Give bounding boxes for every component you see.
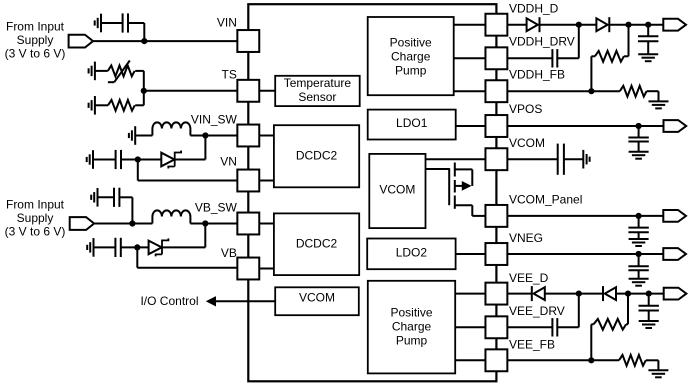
node VB junction — [134, 244, 140, 250]
node VNEG junction — [636, 251, 642, 257]
svg-text:VDDH_FB: VDDH_FB — [509, 68, 565, 82]
connector input supply (upper) — [69, 35, 93, 48]
svg-text:Temperature: Temperature — [284, 76, 352, 90]
svg-text:TS: TS — [222, 68, 237, 82]
label VPOS — [509, 102, 542, 116]
wire R5 to VDDH output — [624, 25, 629, 57]
pin VDDH_D — [485, 14, 507, 36]
diode D2 (schottky) — [149, 238, 169, 256]
pin VB_SW — [237, 213, 259, 235]
wire VDDH_DRV pin to C5 — [507, 57, 552, 59]
ground (C10) — [629, 279, 649, 286]
wire D4 to output — [609, 24, 663, 26]
pin VEE_D — [485, 283, 507, 305]
svg-text:VDDH_DRV: VDDH_DRV — [509, 34, 575, 48]
label TS — [222, 68, 237, 82]
node TS junction — [141, 88, 147, 94]
svg-text:VCOM: VCOM — [379, 183, 415, 197]
block Positive Charge Pump (bottom) — [368, 281, 455, 374]
wire VEE_D pin to D5 — [507, 293, 531, 295]
connector input supply (lower) — [70, 217, 94, 230]
svg-text:VCOM: VCOM — [509, 136, 545, 150]
resistor R3 (TS bias) — [108, 100, 135, 111]
capacitor C5 (flying) — [552, 49, 557, 67]
capacitor C1 (VIN bypass) — [123, 13, 128, 32]
label VEE_FB — [509, 338, 555, 352]
node VB_SW junction — [202, 220, 208, 226]
wire VIN_SW pin to DCDC2 — [259, 135, 274, 137]
label VCOM — [509, 136, 545, 150]
wire VNEG pin to output — [507, 253, 663, 255]
resistor R5 (FB upper) — [595, 51, 624, 62]
svg-text:DCDC2: DCDC2 — [296, 148, 338, 162]
wire resistor branch — [135, 91, 144, 106]
capacitor C11 (flying) — [552, 318, 557, 336]
wire ground to L1 — [135, 135, 152, 137]
svg-text:Supply: Supply — [17, 211, 54, 225]
pin VPOS — [485, 115, 507, 137]
node VEE pump junction — [576, 291, 582, 297]
wire R3 to ground — [95, 104, 108, 106]
capacitor C10 (VNEG) — [628, 254, 648, 279]
svg-text:LDO2: LDO2 — [396, 245, 428, 259]
block DCDC2 (lower) — [274, 213, 359, 275]
connector VCOM_Panel output — [663, 210, 686, 222]
wire D2 to VB_SW node — [162, 224, 205, 248]
ground (C4) — [87, 238, 93, 257]
ground (R6) — [648, 370, 668, 377]
node VEE output junction — [646, 291, 652, 297]
ground (C12) — [639, 321, 659, 328]
wire VDDH_FB pin to divider — [507, 90, 619, 92]
wire VPOS pin to output — [507, 125, 663, 127]
capacitor C7 (VPOS out) — [628, 126, 648, 152]
svg-text:Charge: Charge — [391, 50, 431, 64]
wire C3 to ground — [98, 196, 115, 198]
svg-text:VEE_D: VEE_D — [509, 271, 549, 285]
svg-text:VCOM: VCOM — [299, 291, 335, 305]
wire charge pump to VEE_D pin — [455, 293, 485, 295]
label VN — [220, 155, 237, 169]
node VIN junction — [141, 38, 147, 44]
wire D3 to D4 — [540, 24, 597, 26]
svg-text:From Input: From Input — [6, 197, 65, 211]
wire R4 to ground — [647, 91, 659, 101]
svg-text:Pump: Pump — [395, 64, 427, 78]
wire C1 to ground — [101, 22, 123, 24]
svg-text:VNEG: VNEG — [509, 231, 543, 245]
wire VB node to VB pin — [137, 247, 237, 267]
label VDDH_FB — [509, 68, 565, 82]
wire VN pin to DCDC2 — [259, 180, 274, 182]
node VPOS junction — [636, 123, 642, 129]
svg-text:Pump: Pump — [396, 333, 428, 347]
capacitor C9 (VCOM_Panel) — [628, 216, 648, 239]
wire ground to C4 — [94, 246, 116, 248]
pin VIN_SW — [237, 125, 259, 147]
label VNEG — [509, 231, 543, 245]
block VCOM control — [275, 287, 359, 315]
wire charge pump to VEE_FB pin — [455, 359, 485, 361]
label VEE_DRV — [509, 304, 565, 318]
svg-text:VDDH_D: VDDH_D — [509, 2, 559, 16]
svg-text:VB_SW: VB_SW — [195, 201, 238, 215]
wire C8 to ground — [564, 158, 583, 160]
block Temperature Sensor — [275, 76, 360, 106]
connector VDDH output — [663, 19, 686, 31]
pin VNEG — [485, 243, 507, 265]
pin VCOM — [485, 148, 507, 170]
block DCDC2 (upper) — [274, 125, 359, 187]
wire input to L2 — [95, 223, 153, 225]
wire VCOM control to I/O Control — [206, 296, 275, 306]
node VIN_SW junction — [202, 132, 208, 138]
pin VEE_DRV — [485, 316, 507, 338]
capacitor C6 (VDDH out) — [638, 25, 658, 55]
diode D1 (schottky) — [161, 151, 181, 169]
svg-text:I/O Control: I/O Control — [140, 294, 198, 308]
node VDDH feedback junction — [625, 22, 631, 28]
inductor L2 — [152, 210, 190, 223]
ground (C1) — [95, 14, 101, 33]
resistor R6 (FB lower) — [619, 355, 646, 366]
wire C2 to D1 — [121, 159, 161, 161]
diode D5 — [532, 286, 545, 301]
ground (C3) — [91, 188, 97, 207]
ground (C6) — [638, 54, 658, 61]
wire LDO2 to VNEG pin — [456, 253, 486, 255]
svg-text:Supply: Supply — [17, 33, 54, 47]
thermistor RT1 — [108, 61, 135, 83]
svg-text:VPOS: VPOS — [509, 102, 542, 116]
label VIN_SW — [191, 112, 238, 126]
svg-text:LDO1: LDO1 — [396, 116, 428, 130]
node VCOM_Panel junction — [636, 213, 642, 219]
wire FB to R5 — [591, 56, 595, 91]
diode D6 — [603, 286, 616, 301]
wire L2 to VB_SW pin — [190, 223, 237, 225]
ground (C7) — [629, 152, 649, 159]
label From Input Supply (lower) — [5, 197, 66, 238]
wire C11 to pump node — [557, 294, 579, 328]
svg-text:(3 V to 6 V): (3 V to 6 V) — [5, 47, 66, 61]
svg-text:VIN_SW: VIN_SW — [191, 112, 238, 126]
wire L1 to VIN_SW pin — [190, 135, 237, 137]
pin VIN — [237, 30, 259, 52]
ground (C2) — [87, 150, 93, 169]
diode D3 — [527, 17, 540, 32]
label VDDH_D — [509, 2, 559, 16]
pin TS — [237, 80, 259, 102]
wire VDDH_D pin to D3 — [507, 24, 526, 26]
label VEE_D — [509, 271, 549, 285]
wire VN node to VN pin — [138, 160, 238, 181]
wire D6 to output — [616, 293, 664, 295]
wire D5 to D6 — [545, 293, 603, 295]
wire TS node to TS pin — [144, 90, 238, 92]
wire VEE_DRV pin to C11 — [507, 326, 552, 328]
svg-text:VB: VB — [221, 246, 237, 260]
wire VB bypass branch — [119, 197, 132, 223]
svg-text:VIN: VIN — [217, 16, 237, 30]
pin VDDH_FB — [485, 80, 507, 102]
node VB input junction — [129, 220, 135, 226]
svg-text:DCDC2: DCDC2 — [296, 236, 338, 250]
label From Input Supply (upper) — [5, 20, 66, 61]
node VEE feedback junction — [625, 291, 631, 297]
wire charge pump to VDDH_DRV pin — [454, 57, 486, 59]
wire thermistor branch — [135, 71, 144, 91]
capacitor C2 — [116, 150, 121, 169]
wire LDO1 to VPOS pin — [456, 125, 486, 127]
wire C4 to D2 — [121, 246, 149, 248]
svg-text:Sensor: Sensor — [298, 90, 336, 104]
block LDO1 — [368, 110, 456, 140]
IC U1 outline — [248, 4, 496, 381]
wire VIN bypass branch — [128, 23, 144, 41]
block Positive Charge Pump (top) — [368, 17, 454, 95]
svg-text:Charge: Charge — [392, 320, 432, 334]
label VDDH_DRV — [509, 34, 575, 48]
svg-text:(3 V to 6 V): (3 V to 6 V) — [5, 224, 66, 238]
wire thermistor to ground — [95, 70, 108, 72]
wire VCOM block to VCOM pin — [426, 158, 486, 160]
svg-text:Positive: Positive — [390, 36, 432, 50]
wire VB_SW pin to DCDC2 lower — [259, 223, 274, 225]
pin VEE_FB — [485, 349, 507, 371]
ground (R3) — [89, 96, 95, 115]
block LDO2 — [367, 239, 455, 270]
svg-text:From Input: From Input — [6, 20, 65, 34]
pin VB — [237, 258, 259, 280]
label VB — [221, 246, 237, 260]
svg-text:VEE_FB: VEE_FB — [509, 338, 555, 352]
svg-text:VEE_DRV: VEE_DRV — [509, 304, 565, 318]
capacitor C8 (VCOM) — [558, 144, 564, 175]
label I/O Control — [140, 294, 198, 308]
wire TS pin to Temperature Sensor — [259, 90, 275, 92]
ground (L1) — [129, 126, 135, 145]
diode D4 — [596, 17, 609, 32]
wire VB pin to DCDC2 lower — [259, 268, 274, 270]
pin VDDH_DRV — [485, 47, 507, 69]
pin VCOM_Panel — [485, 205, 507, 227]
connector VEE output — [664, 288, 687, 300]
svg-text:Positive: Positive — [390, 306, 432, 320]
wire C5 to pump node — [557, 25, 579, 59]
wire charge pump to VDDH_FB pin — [454, 90, 486, 92]
connector VNEG output — [663, 248, 686, 260]
wire FB to R7 — [591, 324, 593, 360]
ground (C9) — [629, 239, 649, 246]
wire VEE_FB pin to divider — [507, 359, 619, 361]
wire charge pump to VDDH_D pin — [454, 24, 486, 26]
pin VN — [237, 170, 259, 192]
label VCOM_Panel — [509, 192, 582, 206]
block VCOM amplifier — [369, 154, 425, 228]
label VB_SW — [195, 201, 238, 215]
node VN junction — [135, 156, 141, 162]
svg-text:VN: VN — [220, 155, 237, 169]
wire input to VIN pin — [93, 40, 237, 42]
transistor Q1 (VCOM switch) — [449, 163, 485, 216]
capacitor C3 (input bypass) — [114, 188, 119, 207]
wire VCOM_Panel pin to output — [507, 215, 663, 217]
wire charge pump to VEE_DRV pin — [455, 326, 485, 328]
wire ground to C2 — [93, 159, 116, 161]
capacitor C4 — [115, 238, 120, 257]
node VDDH output junction — [645, 22, 651, 28]
inductor L1 — [152, 122, 190, 135]
wire D1 to VIN_SW node — [175, 136, 206, 160]
ground (C8) — [583, 150, 589, 169]
node VDDH_FB junction — [588, 88, 594, 94]
wire R7 to VEE output — [626, 294, 628, 325]
node VEE_FB junction — [588, 357, 594, 363]
wire R6 to ground — [646, 360, 659, 370]
connector VPOS output — [664, 120, 687, 132]
node VDDH pump junction — [576, 22, 582, 28]
ground (thermistor) — [89, 62, 95, 81]
ground (R4) — [649, 101, 669, 108]
capacitor C12 (VEE out) — [639, 294, 659, 321]
resistor R7 (FB upper) — [594, 319, 627, 330]
resistor R4 (FB lower) — [620, 86, 647, 97]
wire VCOM pin to C8 — [507, 158, 557, 160]
wire VCOM block to MOSFET gate — [426, 168, 450, 170]
label VIN — [217, 16, 237, 30]
svg-text:VCOM_Panel: VCOM_Panel — [509, 192, 582, 206]
